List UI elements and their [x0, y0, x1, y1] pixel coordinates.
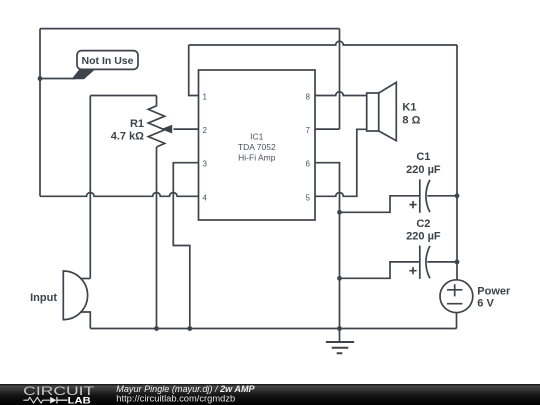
svg-text:220 µF: 220 µF: [406, 164, 441, 176]
op-amp U1 : IC1 TDA7052 box: [199, 70, 316, 220]
resistor R1 potentiometer: [148, 96, 172, 148]
svg-text:http://circuitlab.com/crgmdzb: http://circuitlab.com/crgmdzb: [116, 393, 235, 403]
svg-text:4: 4: [203, 193, 208, 202]
svg-text:IC1: IC1: [250, 132, 264, 142]
svg-text:4.7 kΩ: 4.7 kΩ: [111, 131, 144, 143]
label K1 value: [402, 102, 420, 127]
node junction dot C2 right at right rail: [455, 260, 460, 265]
svg-text:C1: C1: [416, 151, 430, 163]
wire not-in-use stub: [40, 78, 76, 80]
microphone Input: [63, 271, 87, 320]
footer watermark bar: [0, 384, 540, 405]
svg-text:TDA 7052: TDA 7052: [238, 142, 276, 152]
wire C1 right: [427, 195, 457, 197]
wire C1 left jog: [340, 196, 420, 213]
wire left rail vertical x=40: [39, 29, 41, 197]
wire pin8 to speaker with hop: [315, 92, 367, 96]
speaker K1: [367, 82, 397, 140]
svg-text:3: 3: [203, 160, 208, 169]
wire pin7 connection: [315, 128, 340, 130]
svg-text:7: 7: [306, 126, 311, 135]
capacitor C1 polarized: [409, 179, 430, 212]
svg-text:Hi-Fi Amp: Hi-Fi Amp: [238, 153, 276, 163]
svg-text:C2: C2: [416, 218, 430, 230]
svg-text:8: 8: [306, 93, 311, 102]
wire y=45 rail to right with hop over x=339.5: [189, 41, 457, 45]
wire R1 top horizontal: [90, 95, 156, 97]
svg-text:Input: Input: [30, 292, 57, 304]
svg-text:R1: R1: [130, 118, 144, 130]
svg-text:LAB: LAB: [68, 396, 91, 405]
label C2 value: [406, 218, 441, 242]
power source V1: [440, 280, 473, 313]
wire pin2 to wiper arrow: [174, 128, 199, 130]
svg-text:6 V: 6 V: [477, 297, 494, 309]
label C1 value: [406, 151, 441, 176]
svg-text:220 µF: 220 µF: [406, 231, 441, 243]
svg-text:6: 6: [306, 160, 311, 169]
node junction dot C1 left at ground column: [337, 210, 342, 215]
wire pin5 to speaker bottom with hop: [315, 129, 367, 196]
svg-text:8 Ω: 8 Ω: [402, 114, 420, 126]
node junction dot at (40,78.5): [38, 76, 43, 81]
logo CIRCUIT LAB: [23, 384, 95, 405]
svg-text:Power: Power: [477, 286, 511, 298]
svg-text:5: 5: [306, 193, 311, 202]
wire ground bus bottom: [90, 328, 456, 330]
wire right rail vertical x=457 down to power +: [456, 45, 458, 280]
svg-text:Not In Use: Not In Use: [82, 55, 134, 67]
wire pin3 down to ground bus: [173, 163, 198, 329]
wire pin6 ground column lower segment: [315, 163, 340, 329]
node junction dot pin3 wire at ground bus: [187, 326, 192, 331]
wire R1 bottom lead to ground bus: [156, 147, 158, 329]
wire pin1 up and over: [189, 45, 199, 96]
wire C2 left jog: [340, 262, 420, 278]
wire mic top stub: [81, 278, 90, 280]
label R1 value: [111, 118, 144, 143]
footer credit text: [116, 384, 255, 403]
flag Not In Use: [72, 51, 139, 80]
node junction dot C1 right at right rail: [455, 193, 460, 198]
wire ground column upper segment x=339.5 to pin7: [339, 29, 341, 130]
wire power bottom to ground bus: [456, 312, 458, 328]
wire pin4 horizontal with hops over x=90.3,156.5,173.3: [40, 193, 199, 197]
svg-text:K1: K1: [402, 102, 416, 114]
capacitor C2 polarized: [409, 246, 430, 279]
wire R1 box left vertical down to mic top: [89, 96, 91, 279]
ground: [326, 329, 354, 354]
node junction dot C2 left at ground column: [337, 276, 342, 281]
wire mic bottom stub: [81, 312, 90, 329]
svg-text:2: 2: [203, 126, 208, 135]
node junction dot ground column at ground bus: [337, 326, 342, 331]
node junction dot R1 bottom at ground bus: [154, 326, 159, 331]
svg-text:1: 1: [203, 93, 208, 102]
label Power value: [477, 286, 511, 310]
wire C2 right: [427, 261, 457, 263]
wire top rail from left rail to ground column: [40, 28, 340, 30]
